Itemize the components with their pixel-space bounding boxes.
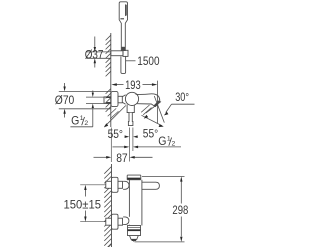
svg-text:150±15: 150±15 (64, 197, 102, 211)
svg-text:55°: 55° (108, 127, 123, 141)
svg-text:87: 87 (116, 151, 128, 165)
svg-text:2: 2 (172, 140, 176, 147)
svg-text:Ø37: Ø37 (85, 48, 104, 62)
svg-text:1500: 1500 (137, 54, 159, 68)
svg-text:193: 193 (125, 78, 141, 92)
svg-text:55°: 55° (143, 127, 158, 141)
svg-text:Ø70: Ø70 (55, 93, 75, 107)
svg-text:G: G (158, 134, 166, 148)
svg-text:2: 2 (84, 120, 88, 127)
svg-text:298: 298 (172, 203, 188, 217)
svg-text:G: G (71, 114, 79, 128)
svg-text:30°: 30° (175, 90, 189, 104)
